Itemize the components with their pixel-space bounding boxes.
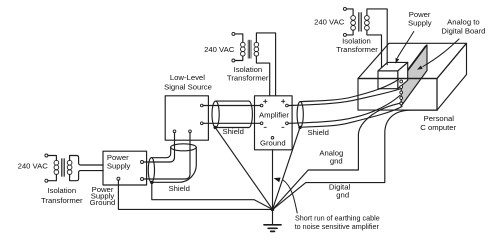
annotation arc short run of earthing cable [283,180,297,213]
amplifier input terminal minus [260,122,263,125]
wire T1 secondary top to power supply [70,156,104,166]
wire power supply to source (in elbow shield) top [144,133,175,162]
svg-text:Ground: Ground [90,198,116,207]
svg-text:gnd: gnd [336,191,349,200]
elbow shield inner wall [151,147,170,157]
elbow shield left opening [148,158,154,183]
wire T2 primary top lead [235,34,243,42]
transformer T3 core [359,13,362,32]
svg-text:Isolation: Isolation [47,186,76,195]
transformer T1 primary winding [54,160,59,165]
wire T3 primary top lead [346,9,353,16]
PC power supply cube front face [378,71,398,89]
wire source to amplifier minus [203,122,260,124]
wire power supply ground to star point [118,180,271,209]
wire T1 primary top lead [48,156,57,161]
svg-text:240 VAC: 240 VAC [204,45,235,54]
power supply output terminal bottom [141,178,144,181]
amplifier output terminal minus [286,122,289,125]
right shield cylinder top boundary [300,80,398,102]
source right terminal bottom [200,122,203,125]
svg-text:240 VAC: 240 VAC [314,17,345,26]
transformer T1 (bottom left) left terminal top [45,154,48,157]
personal computer case front face [358,79,437,111]
wire T3 secondary bottom to PC power supply [367,30,382,67]
ground symbol stem [272,209,274,224]
transformer T3 primary winding [351,16,356,21]
svg-text:Transformer: Transformer [227,73,269,82]
board connector pin 5 [400,102,403,105]
amplifier ground terminal [271,137,274,140]
board connector pin 1 [400,80,403,83]
wire amplifier output minus to board [288,96,400,124]
transformer T3 (top right) left terminal top [343,7,346,10]
svg-text:Low-Level: Low-Level [170,73,205,82]
arrowhead short run annotation [274,178,281,183]
wire amplifier ground to star point [272,150,274,208]
wire T2 secondary top to amplifier [256,33,275,96]
middle shield right rim [249,101,253,127]
power supply output terminal top [141,161,144,164]
source right terminal top [200,104,203,107]
personal computer case top face [358,43,467,78]
transformer T1 left terminal bottom [45,179,48,182]
transformer T1 core [62,159,65,177]
wire T3 primary bottom lead [346,30,353,35]
PC power supply cube top face [378,62,408,71]
annotation arrow PC power supply [398,32,414,58]
amplifier minus mark right [282,126,284,128]
right shield cylinder bottom boundary [300,107,402,128]
junction middle shield ground [214,126,217,129]
junction right shield ground [298,126,301,129]
svg-text:C omputer: C omputer [420,123,456,132]
transformer T2 primary winding [241,42,246,47]
junction elbow shield ground [150,181,153,184]
board connector pin 4 [400,97,403,100]
svg-text:Ground: Ground [260,138,286,147]
transformer T3 left terminal bottom [343,33,346,36]
svg-text:gnd: gnd [330,156,343,165]
wire right shield to star point [273,127,301,209]
wire T3 secondary top to PC power supply [367,9,387,65]
wire source to amplifier plus [203,105,260,107]
source bottom terminal right [189,130,192,133]
wire amplifier output plus to board [288,89,400,106]
amplifier plus mark left [264,100,267,103]
personal computer case right face [437,43,467,110]
right shield cylinder left rim [297,102,303,128]
svg-text:Personal: Personal [424,114,455,123]
wire T2 secondary bottom to amplifier [256,56,269,96]
elbow shield outer wall [151,147,196,182]
wire elbow shield to star point [152,183,273,209]
wire T1 primary bottom lead [48,174,57,180]
star earthing node [271,208,275,212]
svg-text:Analog to: Analog to [447,18,479,27]
analog to digital board (gray slab) [401,45,427,106]
wire middle shield to star point [215,127,272,209]
source bottom terminal left [173,130,176,133]
power supply box [103,151,147,185]
svg-text:Supply: Supply [107,162,131,171]
transformer T2 core [248,40,251,58]
wire T1 secondary bottom to power supply [70,171,104,181]
transformer T2 secondary winding [254,42,259,47]
wire digital ground from star to PC chassis [273,110,437,209]
low-level signal source box [165,96,208,140]
analog to digital board thickness edge [399,45,427,81]
wire analog ground from star to board [273,103,400,209]
amplifier output terminal plus [286,104,289,107]
transformer T3 secondary winding [365,16,370,21]
power supply ground terminal [117,177,120,180]
elbow shield top opening [171,144,197,151]
transformer T2 left terminal bottom [232,59,235,62]
arrowhead PC power supply [396,58,400,64]
amplifier minus mark left [264,126,266,128]
amplifier plus mark right [282,100,285,103]
arrowhead analog to digital board [417,66,423,70]
svg-text:Shield: Shield [223,127,244,136]
svg-text:Shield: Shield [308,128,329,137]
wire T2 primary bottom lead [235,56,243,60]
svg-text:to noise sensitive amplifier: to noise sensitive amplifier [295,222,380,231]
svg-text:Amplifier: Amplifier [259,111,289,120]
svg-text:240 VAC: 240 VAC [18,162,49,171]
transformer T2 (above amplifier) left terminal top [232,32,235,35]
annotation arrow analog to digital board [423,39,459,67]
amplifier box [255,96,293,150]
PC power supply cube right face [398,62,408,88]
wire power supply to source (in elbow shield) bottom [144,133,191,179]
svg-text:Shield: Shield [169,184,190,193]
middle shield left rim [212,101,219,127]
ground symbol bars [264,224,281,226]
board connector pin 2 [400,86,403,89]
svg-text:Digital Board: Digital Board [441,27,485,36]
svg-text:Signal Source: Signal Source [164,83,212,92]
svg-text:Supply: Supply [408,18,432,27]
board connector pin 3 [400,91,403,94]
svg-text:Transformer: Transformer [336,45,378,54]
transformer T1 secondary winding [67,160,72,165]
svg-text:Transformer: Transformer [41,196,83,205]
middle shield cylinder body [216,101,249,127]
amplifier input terminal plus [260,104,263,107]
